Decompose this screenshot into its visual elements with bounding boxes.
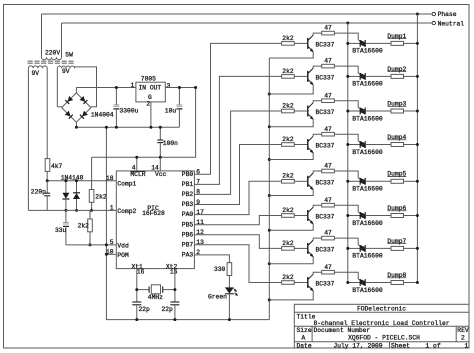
svg-text:220V: 220V (45, 50, 60, 57)
op-amp U1 PIC 16F628 body (116, 171, 194, 269)
svg-text:1 of: 1 of (426, 342, 441, 349)
capacitor C4 220p (46, 181, 48, 194)
svg-text:10: 10 (106, 249, 114, 256)
wire triac to dump ch3 (365, 110, 391, 112)
svg-text:PB2: PB2 (182, 191, 194, 198)
svg-text:Document Number: Document Number (314, 327, 371, 334)
wire Phase vertical bus (416, 14, 418, 283)
wire 2k2 to base ch2 (294, 75, 308, 77)
wire Vcc stub pin14 (159, 157, 161, 171)
wire dump to phase bus ch1 (404, 42, 418, 44)
wire 47 to triac gate ch5 (334, 171, 360, 179)
diode D2 1N4004 top-right (80, 96, 88, 104)
svg-text:PB6: PB6 (182, 231, 194, 238)
wire emitter return ch8 (269, 291, 313, 300)
svg-text:BC337: BC337 (316, 143, 335, 150)
wire PIC pin 17 to channel 5 (194, 181, 281, 214)
wire 2k2 to base ch1 (294, 42, 308, 44)
resistor R23 47 ch3 (322, 99, 335, 103)
resistor R15 2k2 ch5 (282, 180, 295, 184)
svg-text:2k2: 2k2 (282, 207, 294, 214)
triac U6 BTA16600 (360, 212, 365, 219)
wire collector to 47 ch4 (313, 134, 322, 136)
resistor R27 47 ch7 (322, 236, 335, 240)
wire bridge plus to 7805 IN (76, 87, 135, 89)
transformer secondary 9V right (57, 66, 74, 68)
wire neutral bus to triac ch8 (348, 282, 360, 284)
svg-text:Phase: Phase (438, 11, 457, 18)
wire triac to dump ch2 (365, 75, 391, 77)
resistor R16 2k2 ch6 (282, 214, 295, 218)
wire neutral bus to triac ch4 (348, 144, 360, 146)
svg-text:2k2: 2k2 (282, 274, 294, 281)
wire dump to phase bus ch4 (404, 144, 418, 146)
wire right secondary right lead to bridge right (75, 67, 97, 107)
capacitor C5 33u (65, 210, 67, 223)
wire dump to phase bus ch3 (404, 110, 418, 112)
wire dump to phase bus ch2 (404, 75, 418, 77)
svg-text:BC337: BC337 (316, 75, 335, 82)
wire 7805 G to ground rail (150, 102, 152, 127)
resistor R25 47 ch5 (322, 169, 335, 173)
LED D7 Green (225, 287, 234, 293)
resistor Dump3 load (391, 109, 404, 113)
wire 47 to triac gate ch7 (334, 238, 360, 246)
wire PIC pin 7 to channel 2 (194, 76, 281, 184)
diode D1 1N4004 top-left (65, 96, 73, 104)
wire collector to 47 ch8 (313, 272, 322, 274)
resistor Dump5 load (391, 179, 404, 183)
wire neutral bus to triac ch3 (348, 110, 360, 112)
resistor Dump1 load (391, 41, 404, 45)
wire +5V down to 2k2 divider top (91, 157, 93, 189)
diode D6 1N4148 up (76, 181, 78, 193)
svg-text:2k2: 2k2 (282, 136, 294, 143)
svg-text:47: 47 (324, 58, 332, 65)
crystal Y1 4MHz (137, 289, 149, 291)
svg-text:2: 2 (461, 335, 465, 342)
wire emitter return ch3 (269, 119, 313, 126)
terminal Neutral (432, 21, 435, 24)
wire 47 to triac gate ch3 (334, 101, 360, 109)
svg-text:PA3: PA3 (182, 252, 194, 259)
node Neutral bus junction (346, 22, 349, 25)
capacitor C2 10u (178, 88, 180, 106)
title block frame (294, 304, 469, 348)
wire collector to 47 ch1 (313, 33, 322, 35)
wire emitter return ch2 (269, 85, 313, 94)
svg-text:2k2: 2k2 (282, 68, 294, 75)
resistor Dump4 load (391, 143, 404, 147)
resistor R26 47 ch6 (322, 203, 335, 207)
capacitor C3 100n (159, 127, 161, 140)
triac U4 BTA16600 (360, 141, 365, 148)
wire collector to 47 ch3 (313, 101, 322, 103)
triac U1 BTA16600 (360, 40, 365, 47)
wire POM pin10 (106, 253, 116, 255)
svg-text:47: 47 (324, 264, 332, 271)
svg-text:BC337: BC337 (316, 42, 335, 49)
wire PIC pin 8 to channel 3 (194, 111, 281, 194)
wire triac to dump ch7 (365, 247, 391, 249)
svg-text:IN OUT: IN OUT (139, 85, 162, 92)
resistor R21 47 ch1 (322, 31, 335, 35)
svg-text:5: 5 (110, 239, 114, 246)
svg-text:PB1: PB1 (182, 181, 194, 188)
transformer core (28, 61, 75, 63)
resistor R11 2k2 ch1 (282, 42, 295, 46)
triac U2 BTA16600 (360, 73, 365, 80)
svg-text:47: 47 (324, 230, 332, 237)
resistor Dump7 load (391, 246, 404, 250)
svg-text:Comp1: Comp1 (117, 180, 136, 187)
svg-text:3: 3 (167, 82, 171, 89)
resistor R12 2k2 ch2 (282, 75, 295, 79)
wire 2k2 to base ch8 (294, 282, 308, 284)
svg-text:Vdd: Vdd (117, 243, 129, 250)
resistor Dump6 load (391, 214, 404, 218)
wire Phase rail horizontal (42, 13, 432, 15)
wire emitter return ch5 (269, 190, 313, 196)
transformer secondary 9V left (28, 66, 47, 68)
wire bridge minus stub (75, 122, 77, 127)
svg-text:BTA16600: BTA16600 (352, 48, 382, 55)
resistor Dump8 load (391, 281, 404, 285)
svg-text:18: 18 (106, 175, 114, 182)
svg-text:Comp2: Comp2 (117, 208, 136, 215)
wire Xt1 down (136, 269, 138, 302)
wire PIC pin 9 to channel 4 (194, 145, 281, 205)
svg-text:BTA16600: BTA16600 (352, 115, 382, 122)
wire emitter return ch1 (269, 52, 313, 58)
wire 2k2 to base ch7 (294, 247, 308, 249)
capacitor C1 3300u (115, 88, 117, 106)
svg-text:BTA16600: BTA16600 (352, 253, 382, 260)
transistor Q4 BC337 (307, 139, 309, 150)
resistor R3 2k2 lower (89, 210, 91, 219)
wire emitter return ch4 (269, 153, 313, 160)
svg-text:2k2: 2k2 (78, 223, 90, 230)
node 22p rail junctions (135, 318, 138, 321)
transistor Q6 BC337 (307, 210, 309, 221)
svg-text:4MHz: 4MHz (148, 294, 163, 301)
svg-text:PB5: PB5 (182, 221, 194, 228)
svg-text:100n: 100n (163, 140, 178, 147)
svg-text:BC337: BC337 (316, 281, 335, 288)
resistor R2 2k2 upper (89, 190, 94, 203)
svg-text:PB0: PB0 (182, 171, 194, 178)
resistor R4 330 (227, 263, 232, 276)
node bus return junction ch2 (268, 93, 271, 96)
wire Neutral vertical bus (347, 23, 349, 283)
svg-text:Date: Date (297, 342, 312, 349)
resistor R28 47 ch8 (322, 270, 335, 274)
svg-text:47: 47 (324, 126, 332, 133)
wire Neutral rail horizontal (62, 22, 432, 24)
resistor R14 2k2 ch4 (282, 143, 295, 147)
svg-text:2k2: 2k2 (282, 240, 294, 247)
svg-text:Sheet: Sheet (391, 342, 410, 349)
transistor Q2 BC337 (307, 71, 309, 82)
svg-text:5W: 5W (65, 51, 73, 58)
svg-text:2k2: 2k2 (282, 102, 294, 109)
wire primary left to Phase (41, 14, 43, 57)
wire emitter return ch7 (269, 257, 313, 264)
wire MCLR stub pin4 (136, 157, 138, 171)
diode D5 1N4148 down (65, 181, 67, 193)
svg-text:FODelectronic: FODelectronic (357, 305, 406, 312)
node bus return junction ch7 (268, 262, 271, 265)
wire 47 to triac gate ch4 (334, 134, 360, 142)
wire collector to 47 ch6 (313, 205, 322, 207)
resistor R13 2k2 ch3 (282, 109, 295, 113)
wire left secondary right lead down to 4k7 (46, 68, 48, 158)
svg-text:BC337: BC337 (316, 214, 335, 221)
svg-text:REV: REV (457, 327, 469, 334)
wire collector to 47 ch7 (313, 238, 322, 240)
resistor R18 2k2 ch8 (282, 281, 295, 285)
svg-text:BC337: BC337 (316, 109, 335, 116)
triac U7 BTA16600 (360, 245, 365, 252)
wire dump to phase bus ch7 (404, 247, 418, 249)
svg-text:Vcc: Vcc (155, 171, 167, 178)
wire primary right to Neutral (61, 23, 63, 57)
svg-text:1N4148: 1N4148 (61, 175, 84, 182)
svg-text:4k7: 4k7 (51, 163, 63, 170)
svg-text:47: 47 (324, 92, 332, 99)
svg-text:7805: 7805 (141, 75, 156, 82)
wire neutral bus to triac ch5 (348, 180, 360, 182)
wire 4k7 to Comp1 node (46, 171, 48, 180)
wire dump to phase bus ch8 (404, 282, 418, 284)
diode D3 1N4004 bottom-left (65, 111, 73, 119)
wire triac to dump ch1 (365, 42, 391, 44)
triac U5 BTA16600 (360, 178, 365, 185)
svg-text:47: 47 (324, 197, 332, 204)
svg-text:1N4004: 1N4004 (91, 111, 114, 118)
svg-text:BTA16600: BTA16600 (352, 149, 382, 156)
svg-text:PB3: PB3 (182, 201, 194, 208)
svg-text:2k2: 2k2 (95, 194, 107, 201)
transistor Q5 BC337 (307, 176, 309, 187)
wire emitter common bus (268, 58, 270, 320)
wire 2k2 to base ch5 (294, 180, 308, 182)
wire left secondary left lead down to Comp2 node (27, 68, 29, 210)
wire triac to dump ch6 (365, 215, 391, 217)
svg-text:9V: 9V (62, 68, 70, 75)
resistor R24 47 ch4 (322, 132, 335, 136)
triac U3 BTA16600 (360, 108, 365, 115)
node Phase bus junction (416, 13, 419, 16)
svg-text:BTA16600: BTA16600 (352, 220, 382, 227)
wire 47 to triac gate ch8 (334, 272, 360, 280)
diode D4 1N4004 bottom-right (80, 111, 88, 119)
svg-text:1: 1 (110, 205, 114, 212)
svg-text:22p: 22p (139, 306, 151, 313)
wire PA3 to LED resistor (194, 255, 229, 263)
resistor Dump2 load (391, 74, 404, 78)
wire 330 to LED (228, 276, 230, 288)
wire Comp1 node to PIC pin 18 (47, 180, 116, 182)
wire neutral bus to triac ch2 (348, 75, 360, 77)
svg-text:POM: POM (117, 252, 129, 259)
node bus return junction ch4 (268, 158, 271, 161)
resistor R17 2k2 ch7 (282, 247, 295, 251)
svg-text:2k2: 2k2 (282, 173, 294, 180)
wire Vss pin5 (66, 244, 116, 246)
regulator U2 7805 body (136, 82, 165, 102)
wire Comp2 node to PIC pin 1 (28, 209, 116, 211)
wire emitter return ch6 (269, 224, 313, 231)
wire ground feeder down to bottom rail (106, 127, 269, 319)
svg-text:2k2: 2k2 (282, 35, 294, 42)
svg-text:2: 2 (146, 101, 150, 108)
svg-text:XQ6FOD - PICELC.SCH: XQ6FOD - PICELC.SCH (348, 335, 420, 342)
svg-text:Neutral: Neutral (438, 20, 465, 27)
svg-text:BTA16600: BTA16600 (352, 186, 382, 193)
svg-text:16: 16 (137, 269, 145, 276)
wire collector to 47 ch5 (313, 171, 322, 173)
svg-text:BTA16600: BTA16600 (352, 81, 382, 88)
wire 7805 OUT +5V (165, 87, 195, 89)
wire triac to dump ch5 (365, 180, 391, 182)
wire +5V down and left to Vcc/MCLR (92, 88, 196, 158)
transistor Q3 BC337 (307, 106, 309, 117)
svg-text:Size: Size (297, 327, 312, 334)
node bridge minus junction (75, 126, 78, 129)
wire neutral bus to triac ch1 (348, 42, 360, 44)
wire 47 to triac gate ch1 (334, 33, 360, 41)
wire PIC pin 11 to channel 6 (194, 216, 281, 225)
svg-text:BTA16600: BTA16600 (352, 287, 382, 294)
svg-text:BC337: BC337 (316, 180, 335, 187)
svg-text:BC337: BC337 (316, 247, 335, 254)
transformer T1 primary 220V (42, 57, 62, 60)
svg-text:15: 15 (170, 269, 178, 276)
wire neutral bus to triac ch6 (348, 215, 360, 217)
svg-text:9V: 9V (32, 70, 40, 77)
resistor R1 4k7 (45, 159, 50, 172)
wire PIC pin 13 to channel 8 (194, 245, 281, 283)
node bus return junction ch5 (268, 194, 271, 197)
svg-text:33u: 33u (55, 227, 67, 234)
wire Xt2 down (174, 269, 176, 302)
node bus return junction ch8 (268, 298, 271, 301)
wire dump to phase bus ch6 (404, 215, 418, 217)
svg-text:330: 330 (214, 266, 226, 273)
wire collector to 47 ch2 (313, 66, 322, 68)
svg-text:July 17, 2009: July 17, 2009 (333, 342, 382, 349)
terminal Phase (432, 12, 435, 15)
svg-text:8-channel Electronic Load Cont: 8-channel Electronic Load Controller (314, 320, 450, 327)
wire triac to dump ch4 (365, 144, 391, 146)
wire dump to phase bus ch5 (404, 180, 418, 182)
capacitor C7 22p (170, 301, 179, 303)
svg-text:22p: 22p (162, 306, 174, 313)
svg-text:1: 1 (465, 342, 469, 349)
wire ground rail (76, 126, 179, 128)
svg-text:47: 47 (324, 163, 332, 170)
svg-text:220p: 220p (31, 188, 46, 195)
node bus return junction ch6 (268, 229, 271, 232)
wire 47 to triac gate ch6 (334, 205, 360, 213)
svg-text:3300u: 3300u (120, 108, 139, 115)
wire triac to dump ch8 (365, 282, 391, 284)
wire neutral bus to triac ch7 (348, 247, 360, 249)
svg-text:10u: 10u (165, 108, 177, 115)
svg-text:Green: Green (208, 293, 227, 300)
wire PIC pin 12 to channel 7 (194, 235, 281, 249)
capacitor C6 22p (132, 301, 141, 303)
resistor R22 47 ch2 (322, 64, 335, 68)
wire LED to ground rail (228, 294, 230, 320)
wire 2k2 to base ch3 (294, 110, 308, 112)
bridge rectifier D1-D4 1N4004 diamond (62, 93, 91, 122)
node bus return junction ch3 (268, 125, 271, 128)
wire right secondary left lead to bridge left (56, 68, 58, 107)
wire 2k2 to base ch6 (294, 215, 308, 217)
svg-text:PB7: PB7 (182, 241, 194, 248)
wire 47 to triac gate ch2 (334, 66, 360, 74)
svg-text:2: 2 (196, 249, 200, 256)
transistor Q8 BC337 (307, 277, 309, 288)
node 7805 G junction (149, 126, 152, 129)
transistor Q1 BC337 (307, 38, 309, 49)
svg-text:47: 47 (324, 25, 332, 32)
wire 2k2 to base ch4 (294, 144, 308, 146)
triac U8 BTA16600 (360, 279, 365, 286)
svg-text:1: 1 (131, 82, 135, 89)
svg-text:PA0: PA0 (182, 211, 194, 218)
wire PIC pin 6 to channel 1 (194, 43, 281, 174)
svg-text:16F628: 16F628 (142, 210, 165, 217)
svg-text:A: A (302, 335, 306, 342)
transistor Q7 BC337 (307, 243, 309, 254)
wire bridge plus stub (75, 88, 77, 93)
